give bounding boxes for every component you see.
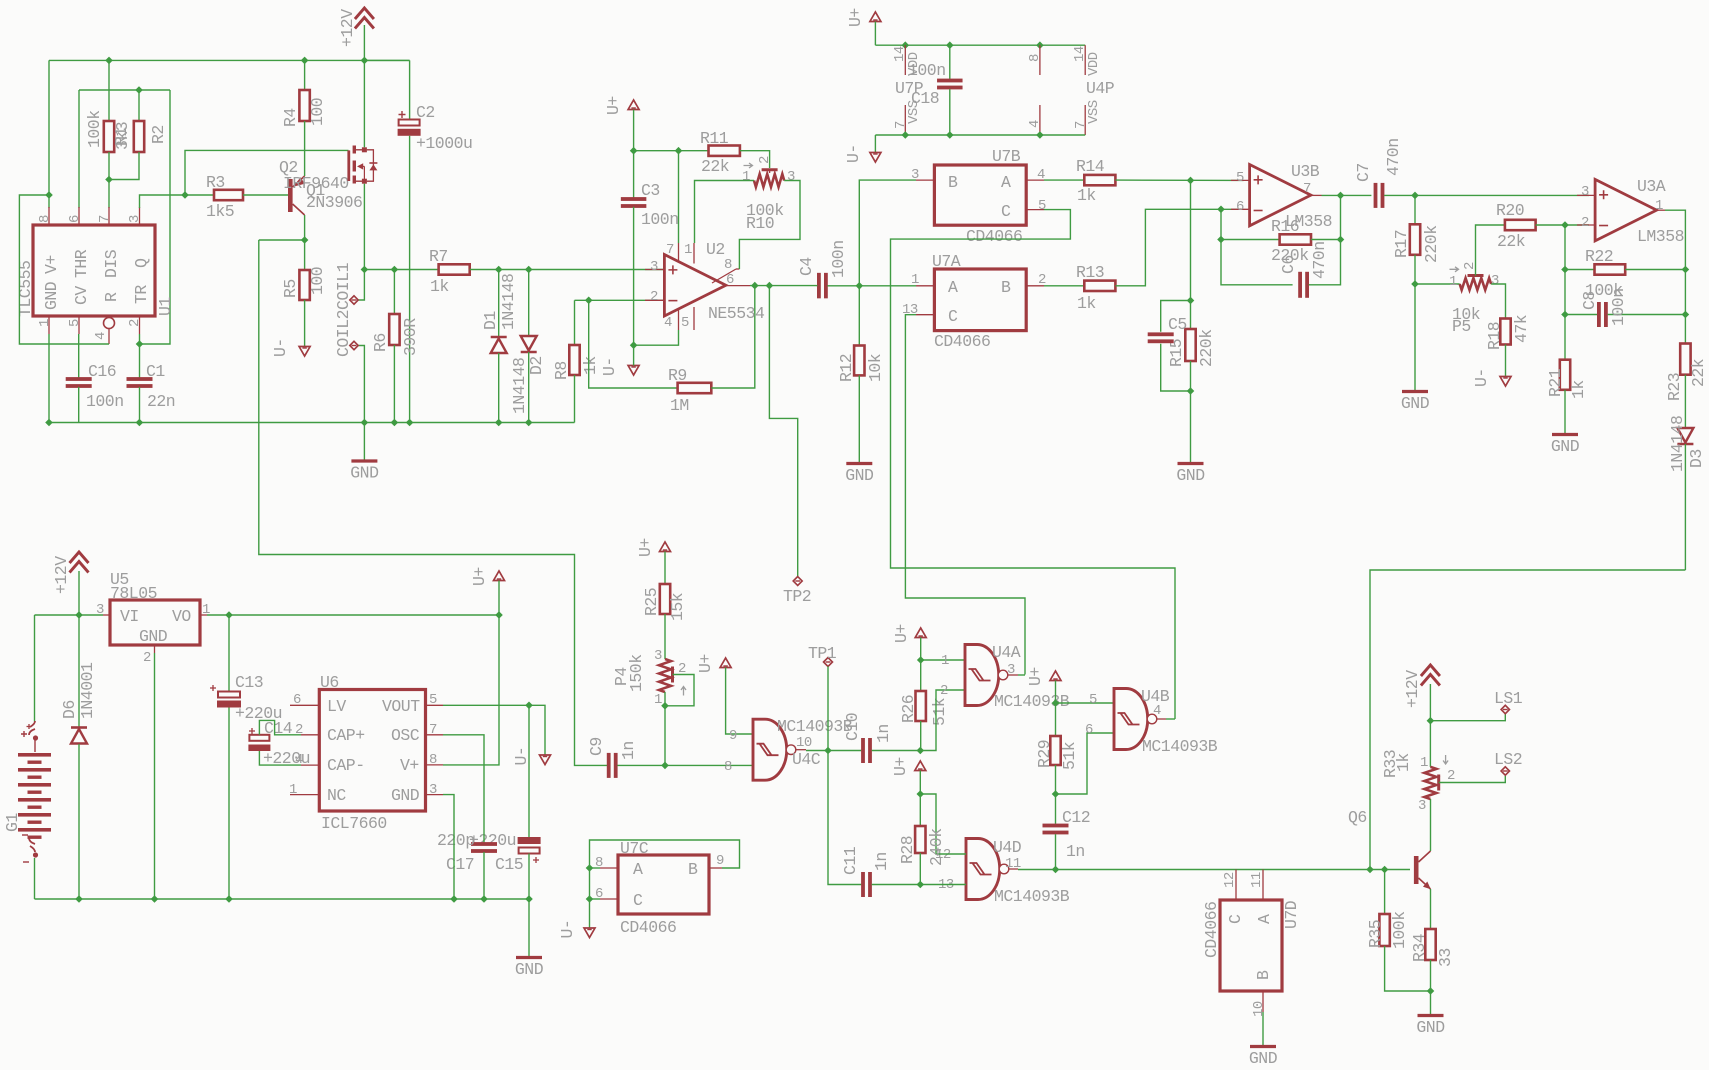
- svg-text:GND: GND: [350, 464, 379, 483]
- svg-text:CD4066: CD4066: [966, 227, 1022, 246]
- junction R17 bottom / P5: [1411, 280, 1419, 288]
- svg-text:A: A: [633, 860, 643, 879]
- junction VSS U7P: [902, 131, 910, 139]
- junction C13 top: [225, 611, 233, 619]
- svg-text:VOUT: VOUT: [382, 697, 420, 716]
- wire output row to C4: [750, 285, 816, 287]
- capacitor C13 +220u: [228, 615, 230, 691]
- power arrow U+ (U4B pin5): [1050, 671, 1061, 681]
- wire collector node to drive line: [259, 239, 305, 241]
- junction C18 top: [946, 41, 954, 49]
- svg-text:3: 3: [429, 782, 437, 798]
- ground symbol GND (R17): [1402, 390, 1428, 393]
- svg-text:C11: C11: [841, 846, 860, 875]
- svg-text:MC14093B: MC14093B: [777, 717, 853, 736]
- svg-text:8: 8: [724, 257, 732, 273]
- junction output/R9: [751, 282, 759, 290]
- svg-text:4: 4: [1027, 120, 1043, 128]
- ground symbol GND (R21): [1552, 433, 1578, 436]
- wire C10 node to U4A pin2: [920, 690, 965, 751]
- wire +12V stem to junction: [1429, 684, 1431, 721]
- wire P4 bottom: [664, 692, 666, 706]
- capacitor C8 100n: [1564, 270, 1566, 315]
- svg-text:6: 6: [1236, 199, 1244, 215]
- resistor R34 33: [1425, 929, 1435, 960]
- junction C7/R17: [1411, 192, 1419, 200]
- junction C3 top: [630, 147, 638, 155]
- svg-text:U+: U+: [470, 567, 489, 586]
- svg-text:U3B: U3B: [1291, 162, 1320, 181]
- wire U+ to pin1 node: [920, 638, 922, 661]
- ground symbol GND (R12): [846, 462, 872, 465]
- junction V+ rail / R1: [105, 57, 113, 65]
- wire THR/TR link y=90: [79, 89, 170, 91]
- ground symbol GND (U7D): [1250, 1045, 1276, 1048]
- svg-text:R2: R2: [149, 125, 168, 144]
- trimmer P5 10k: [1415, 283, 1460, 285]
- wire GND rail y=422: [49, 422, 575, 424]
- resistor R20 22k: [1505, 220, 1536, 230]
- junction R34/R35 bottom: [1427, 987, 1435, 995]
- power arrow U+ (opamp): [628, 100, 639, 110]
- svg-text:1: 1: [911, 272, 919, 288]
- svg-text:R22: R22: [1585, 247, 1613, 266]
- svg-text:ICL7660: ICL7660: [321, 814, 387, 833]
- resistor R15 220k: [1190, 180, 1192, 329]
- wire U7C pin9 loop: [590, 840, 740, 928]
- svg-text:8: 8: [1027, 54, 1043, 62]
- svg-text:1: 1: [941, 653, 949, 669]
- power arrow U+ (U7P rail): [870, 12, 881, 22]
- wire pin1 GND drop: [48, 334, 50, 423]
- wire U5 VO to U+ node: [207, 614, 499, 616]
- wire R28 node to U4D pin12: [920, 794, 966, 854]
- svg-text:C13: C13: [235, 673, 263, 692]
- IC U7C CD4066 (switch C): [618, 855, 709, 914]
- junction rail U6 gnd: [450, 895, 458, 903]
- svg-text:U+: U+: [696, 654, 715, 673]
- junction U4A pin1 node: [917, 656, 925, 664]
- junction U+ node: [495, 611, 503, 619]
- svg-text:COIL2COIL1: COIL2COIL1: [334, 262, 353, 357]
- svg-text:470n: 470n: [1310, 241, 1329, 279]
- svg-text:C6: C6: [1279, 255, 1298, 274]
- svg-text:B: B: [1001, 278, 1011, 297]
- svg-text:B: B: [948, 173, 958, 192]
- wire pin6 jog: [1056, 733, 1115, 794]
- svg-text:U-: U-: [512, 747, 531, 766]
- svg-text:22n: 22n: [147, 392, 175, 411]
- svg-text:TP2: TP2: [783, 587, 811, 606]
- junction rail U5 gnd: [151, 895, 159, 903]
- ground symbol GND (rail): [516, 956, 542, 959]
- transistor Q1 IRF9640 p-mosfet: [347, 150, 350, 181]
- svg-text:R25: R25: [642, 588, 661, 616]
- svg-text:220k: 220k: [1422, 225, 1441, 263]
- svg-text:U1: U1: [156, 297, 175, 316]
- wire R10 pin3 to U2 pin8: [739, 181, 800, 270]
- op-amp U3B LM358: [1250, 165, 1311, 226]
- svg-text:VI: VI: [120, 607, 139, 626]
- resistor R29 51k: [1055, 703, 1057, 736]
- svg-text:7: 7: [1303, 181, 1311, 197]
- wire TP1 stem: [827, 667, 829, 751]
- svg-text:R6: R6: [371, 333, 390, 352]
- junction GND rail D2: [525, 419, 533, 427]
- svg-text:CAP-: CAP-: [327, 756, 365, 775]
- trimmer R10 100k: [762, 168, 778, 171]
- nand gate U4D MC14093B: [966, 839, 1000, 900]
- svg-text:D3: D3: [1687, 449, 1706, 468]
- svg-text:1k: 1k: [430, 277, 449, 296]
- resistor R35 100k: [1384, 870, 1386, 915]
- wire pin8 stub: [590, 867, 601, 869]
- junction VSS U4P: [1036, 131, 1044, 139]
- svg-text:7: 7: [666, 242, 674, 258]
- capacitor C10 1n: [828, 750, 861, 752]
- svg-text:100n: 100n: [829, 240, 848, 278]
- svg-text:C12: C12: [1062, 808, 1090, 827]
- svg-text:LM358: LM358: [1285, 212, 1332, 231]
- svg-text:Q6: Q6: [1348, 808, 1367, 827]
- svg-text:C: C: [1226, 914, 1245, 924]
- wire R11 to R10 wiper: [740, 151, 770, 168]
- wire mosfet source to +12V: [363, 60, 365, 147]
- diode D6 1N4001: [78, 615, 80, 727]
- svg-text:100: 100: [308, 98, 327, 126]
- svg-text:R21: R21: [1546, 368, 1565, 397]
- svg-text:B: B: [688, 860, 698, 879]
- svg-text:1M: 1M: [670, 396, 689, 415]
- wire battery + to U5 VI: [35, 614, 104, 616]
- svg-text:THR: THR: [72, 249, 91, 278]
- svg-text:100: 100: [308, 267, 327, 295]
- svg-text:C7: C7: [1354, 163, 1373, 182]
- junction C10/R26: [917, 747, 925, 755]
- capacitor C17 220p: [471, 842, 497, 846]
- svg-text:C18: C18: [911, 89, 939, 108]
- wire U4D out to Q6 base: [1018, 869, 1410, 871]
- svg-text:3: 3: [1007, 662, 1015, 678]
- svg-text:100n: 100n: [908, 61, 946, 80]
- svg-text:U+: U+: [846, 8, 865, 27]
- svg-text:1k5: 1k5: [206, 202, 234, 221]
- junction GND rail C16 col: [45, 419, 53, 427]
- svg-text:U+: U+: [604, 96, 623, 115]
- junction D1 top: [495, 266, 503, 274]
- trimmer R33 1k: [1429, 721, 1431, 767]
- svg-text:9: 9: [729, 728, 737, 744]
- wire U4B out corner: [1166, 718, 1175, 720]
- junction output/TP2: [766, 282, 774, 290]
- svg-text:100k: 100k: [1390, 911, 1409, 949]
- IC U5 78L05: [110, 600, 200, 645]
- svg-text:+1000u: +1000u: [416, 134, 472, 153]
- svg-text:78L05: 78L05: [110, 584, 157, 603]
- svg-text:U2: U2: [706, 240, 725, 259]
- capacitor C7 470n: [1374, 183, 1378, 208]
- svg-text:3k3: 3k3: [113, 122, 132, 150]
- svg-text:2: 2: [757, 156, 773, 164]
- svg-text:U-: U-: [1472, 368, 1491, 387]
- resistor R8 1k: [574, 300, 576, 345]
- svg-text:51k: 51k: [1060, 741, 1079, 770]
- wire U7A pin13 to U4A out: [905, 315, 1025, 675]
- svg-text:33: 33: [1436, 948, 1455, 967]
- connector LS1: [1501, 705, 1509, 713]
- svg-text:1n: 1n: [874, 724, 893, 743]
- svg-text:R23: R23: [1665, 373, 1684, 401]
- svg-text:MC14093B: MC14093B: [1142, 737, 1218, 756]
- wire reset bracket (pin8 to pin4): [19, 195, 109, 344]
- svg-text:4: 4: [664, 315, 672, 331]
- junction U7P VDD: [902, 41, 910, 49]
- junction D2 top: [525, 266, 533, 274]
- resistor R25 15k: [664, 552, 666, 585]
- capacitor C18 100n: [949, 45, 951, 79]
- svg-text:OSC: OSC: [391, 726, 420, 745]
- wire V+ left drop to pin8: [48, 60, 50, 208]
- wire Q2 collector to junction: [304, 215, 306, 240]
- wire P4 node to C9 node: [664, 706, 666, 766]
- wire P4 wiper loop: [665, 675, 694, 706]
- svg-text:U-: U-: [271, 338, 290, 357]
- svg-text:10: 10: [1251, 1001, 1267, 1017]
- svg-text:R8: R8: [552, 361, 571, 380]
- svg-text:U4C: U4C: [792, 750, 821, 769]
- power arrow V- (opamp): [628, 366, 639, 376]
- svg-text:U3A: U3A: [1637, 177, 1666, 196]
- ground symbol GND (Q6): [1418, 1014, 1444, 1017]
- wire to GND: [1430, 991, 1432, 1014]
- svg-text:100n: 100n: [86, 392, 124, 411]
- IC U7A CD4066: [934, 269, 1026, 331]
- svg-text:2: 2: [295, 722, 303, 738]
- svg-text:+220u: +220u: [469, 831, 516, 850]
- svg-text:C10: C10: [843, 713, 862, 741]
- svg-text:U+: U+: [1026, 667, 1045, 686]
- svg-text:150k: 150k: [627, 654, 646, 692]
- wire U3B out: [1322, 194, 1372, 196]
- wire TP2 run: [769, 286, 797, 576]
- wire R3 to Q2 base: [243, 194, 288, 196]
- svg-text:12: 12: [1222, 872, 1238, 888]
- svg-text:22k: 22k: [701, 157, 730, 176]
- nand gate U4B MC14093B: [1114, 689, 1148, 750]
- svg-text:R10: R10: [746, 214, 774, 233]
- IC U1 TLC555: [33, 225, 155, 316]
- capacitor C1 22n: [139, 334, 141, 380]
- wire C6 right / R16 right to output: [1311, 239, 1341, 241]
- wire P5 wiper to R20: [1476, 225, 1505, 276]
- svg-text:1: 1: [654, 692, 662, 708]
- svg-text:10: 10: [796, 735, 812, 751]
- wire +12V rail y=60: [49, 59, 410, 61]
- resistor R21 1k: [1564, 315, 1566, 360]
- svg-text:VO: VO: [172, 607, 191, 626]
- wire C14 top jog to CAP+: [259, 720, 301, 734]
- svg-text:P5: P5: [1452, 317, 1471, 336]
- svg-text:G1: G1: [3, 813, 22, 832]
- junction pin8 / V+ loop: [45, 191, 53, 199]
- svg-text:6: 6: [67, 215, 83, 223]
- wire P5 pin3 to R18: [1491, 284, 1505, 319]
- capacitor C6 470n: [1298, 272, 1302, 298]
- power arrow U+ (R28): [915, 761, 926, 771]
- junction U3B -in node: [1217, 206, 1225, 214]
- wire U6 OSC pin7 to C17: [443, 735, 484, 844]
- svg-text:1N4001: 1N4001: [78, 662, 97, 719]
- svg-text:5: 5: [681, 315, 689, 331]
- svg-text:R17: R17: [1392, 230, 1411, 258]
- svg-text:R7: R7: [429, 247, 448, 266]
- wire -in to R16/C6: [1220, 209, 1222, 239]
- resistor R23 22k: [1684, 315, 1686, 344]
- svg-text:13: 13: [902, 302, 918, 318]
- wire C7 right: [1384, 194, 1589, 196]
- svg-text:GND: GND: [139, 627, 168, 646]
- wire C11 branch down: [828, 751, 861, 885]
- wire U4C out to TP1/C10: [806, 750, 828, 752]
- capacitor C2 +1000u: [364, 59, 409, 61]
- wire U3A out down: [1665, 210, 1685, 269]
- svg-text:C2: C2: [416, 103, 435, 122]
- wire Q6 emitter to R34: [1430, 889, 1432, 929]
- wire U6 pin5 VOUT to V- node: [443, 704, 529, 706]
- junction R16 right: [1337, 236, 1345, 244]
- svg-text:U+: U+: [636, 538, 655, 557]
- svg-text:+12V: +12V: [1403, 670, 1422, 708]
- power arrow U+ (U4C pin9): [720, 658, 731, 668]
- power symbol +12V (U5): [70, 552, 89, 563]
- svg-text:1: 1: [37, 319, 53, 327]
- svg-text:D6: D6: [60, 700, 79, 719]
- resistor R26 51k: [920, 660, 922, 691]
- wire THR drop: [78, 90, 80, 208]
- wire Q6 collector to R33: [1430, 799, 1432, 851]
- resistor R17 220k: [1414, 195, 1416, 224]
- svg-text:22k: 22k: [1497, 232, 1526, 251]
- diode D3 1N4148: [1677, 428, 1693, 443]
- svg-text:U7B: U7B: [992, 147, 1021, 166]
- junction R9 branch: [585, 297, 593, 305]
- junction VSS C18: [946, 131, 954, 139]
- svg-text:R9: R9: [668, 366, 687, 385]
- svg-text:V+: V+: [42, 255, 61, 274]
- wire R33 wiper to LS2: [1439, 776, 1506, 783]
- resistor R6 390R: [393, 270, 395, 315]
- wire U+ rail top: [874, 22, 876, 46]
- svg-text:LS1: LS1: [1494, 689, 1523, 708]
- pin 4 reset bubble: [104, 318, 115, 329]
- power pins U7P: [904, 45, 906, 75]
- svg-text:1n: 1n: [872, 852, 891, 871]
- test point TP1: [824, 658, 833, 667]
- svg-text:MC14093B: MC14093B: [994, 692, 1070, 711]
- wire pin6 stub: [590, 898, 601, 900]
- power arrow V- (ICL7660 out): [540, 755, 551, 765]
- svg-text:U-: U-: [844, 144, 863, 163]
- svg-text:C: C: [633, 891, 643, 910]
- junction V+ rail / R4: [301, 57, 309, 65]
- svg-text:3: 3: [654, 648, 662, 664]
- svg-text:9: 9: [716, 853, 724, 869]
- IC U6 ICL7660: [319, 690, 425, 812]
- wire U+ stem: [498, 581, 500, 616]
- svg-text:5: 5: [67, 319, 83, 327]
- svg-text:U7D: U7D: [1282, 900, 1301, 929]
- svg-text:GND: GND: [515, 960, 544, 979]
- wire +12V stem: [78, 571, 80, 615]
- junction GND rail C1 col: [136, 419, 144, 427]
- svg-text:51k: 51k: [930, 697, 949, 726]
- svg-text:U7C: U7C: [620, 839, 649, 858]
- junction rail C15: [525, 895, 533, 903]
- svg-text:GND: GND: [1551, 437, 1580, 456]
- svg-text:3: 3: [650, 259, 658, 275]
- wire U+ to pin5 node: [1055, 681, 1057, 704]
- svg-text:GND: GND: [391, 786, 420, 805]
- wire R14 to U3B +in: [1115, 179, 1243, 181]
- wire pin1 node to gate: [921, 659, 965, 661]
- wire pin5 node to gate: [1056, 702, 1115, 704]
- svg-text:11: 11: [1249, 872, 1265, 888]
- svg-text:2: 2: [1581, 215, 1589, 231]
- junction pin7 drop: [675, 147, 683, 155]
- svg-text:R13: R13: [1076, 263, 1104, 282]
- svg-text:2N3906: 2N3906: [306, 193, 362, 212]
- svg-text:2: 2: [127, 319, 143, 327]
- resistor R3 1k5: [214, 190, 243, 200]
- wire VSS rail: [875, 134, 1085, 136]
- ground symbol GND (R15): [1178, 462, 1204, 465]
- svg-text:GND: GND: [1176, 466, 1205, 485]
- svg-text:100n: 100n: [1609, 288, 1628, 326]
- junction R2 top: [135, 86, 143, 94]
- wire GND drop: [528, 899, 530, 956]
- nand gate U4A MC14093B: [965, 645, 999, 706]
- junction R16 left: [1217, 236, 1225, 244]
- svg-text:10k: 10k: [866, 353, 885, 382]
- junction U7C pin8: [586, 864, 594, 872]
- svg-text:C16: C16: [88, 362, 116, 381]
- junction U3B out: [1337, 192, 1345, 200]
- connector LS2: [1501, 767, 1509, 775]
- transistor Q6 npn: [1414, 856, 1419, 884]
- capacitor C15 +220u: [528, 705, 530, 837]
- svg-text:C9: C9: [587, 737, 606, 756]
- capacitor C3 100n: [633, 151, 635, 199]
- junction rail C13: [225, 895, 233, 903]
- svg-text:B: B: [1254, 970, 1273, 980]
- svg-text:4: 4: [93, 332, 109, 340]
- svg-text:U6: U6: [320, 673, 339, 692]
- wire U+ to R28 node: [919, 771, 921, 795]
- svg-text:C3: C3: [641, 181, 660, 200]
- mosfet body diode: [367, 150, 374, 181]
- junction U4D out / C12: [1052, 866, 1060, 874]
- svg-text:220k: 220k: [1197, 329, 1216, 367]
- svg-text:7: 7: [429, 722, 437, 738]
- wire TR link right drop: [140, 90, 171, 344]
- capacitor C4 100n: [817, 273, 821, 299]
- resistor R12 10k: [858, 286, 860, 346]
- svg-text:C: C: [948, 307, 958, 326]
- junction R33 top / LS1: [1427, 717, 1435, 725]
- svg-text:6: 6: [726, 272, 734, 288]
- junction Q output node: [181, 191, 189, 199]
- svg-text:C5: C5: [1168, 315, 1187, 334]
